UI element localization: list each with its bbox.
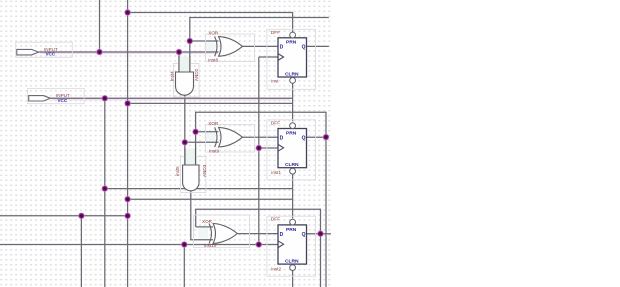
wire clear net vertical below DFF3 CLRN — [292, 271, 294, 287]
svg-text:XOR: XOR — [208, 121, 219, 126]
svg-text:Q: Q — [302, 135, 306, 141]
junction T1 net at XOR2 input — [181, 139, 188, 146]
xor gate U inst10 — [194, 215, 250, 248]
and gate AND3 inst5 (rotated, pointing down) — [175, 148, 207, 193]
wire T1 net AND1 output down to XOR2 input B and AND3 input A — [184, 95, 186, 166]
wire DFF1 Q output (dangling end) — [307, 45, 329, 47]
wire Q0 feedback horizontal y=17.5 (dangling end) — [190, 18, 329, 42]
junction PRN net top — [124, 9, 131, 16]
wire DFF3 Q output (dangling end) — [307, 233, 332, 235]
wire PRN net horizontal y=215.8 from left edge — [0, 215, 128, 217]
wire PRN net horizontal y=199.2 — [128, 198, 293, 200]
svg-text:Q: Q — [302, 232, 306, 238]
wire Q0 net branch to AND1 input B — [189, 41, 191, 73]
junction enable to AND1 — [175, 48, 182, 55]
wire Q2 feedback horizontal y=209.3 — [196, 209, 321, 233]
wire clear net horizontal y=188.6 to DFF2 CLRN — [105, 188, 293, 190]
wire XOR1 output to DFF1 D — [243, 45, 279, 47]
wire PRN net horizontal y=103.4 — [128, 102, 293, 104]
svg-text:VCC: VCC — [57, 98, 67, 103]
wire clock net vertical x=258.8 — [258, 57, 260, 245]
junction clock at DFF2 — [255, 144, 262, 151]
svg-text:inst5: inst5 — [175, 166, 180, 176]
wire clear net vertical x=104.8 — [104, 98, 106, 287]
wire Q2 net vertical down x=320.5 to bottom edge — [320, 234, 322, 287]
wire PRN net vertical x=127.6 (top edge to bottom edge) — [127, 0, 129, 287]
svg-text:XOR: XOR — [202, 219, 213, 224]
wire glow clear net — [52, 97, 290, 100]
svg-text:inst2: inst2 — [271, 266, 281, 271]
svg-text:inst1: inst1 — [271, 170, 281, 175]
svg-text:DFF: DFF — [271, 120, 280, 126]
svg-text:inst8: inst8 — [208, 58, 218, 63]
wire glow enable net — [40, 51, 218, 54]
svg-text:inst4: inst4 — [169, 71, 174, 81]
wire INPUT2 clear horizontal y=98.3 to DFF1 CLRN — [51, 97, 293, 99]
svg-text:inst10: inst10 — [204, 243, 217, 248]
dff U inst2 (bit 2) — [267, 216, 316, 276]
svg-text:DFF: DFF — [271, 217, 280, 223]
wire INPUT1 enable vertical x=99.5 from top edge — [99, 0, 101, 52]
junction PRN net y=215.8 — [124, 212, 131, 219]
junction clock branch x=184.3 — [181, 241, 188, 248]
svg-text:CLRN: CLRN — [285, 259, 299, 265]
junction PRN net y=199.2 — [124, 196, 131, 203]
xor gate U inst8 — [204, 31, 255, 63]
wire clock branch down x=184.3 — [183, 245, 185, 287]
junction Q0 net — [186, 37, 193, 44]
svg-text:DFF: DFF — [271, 30, 280, 36]
wire clock stub to DFF2 clk — [259, 147, 278, 149]
wire INPUT1 enable horizontal y=52 to XOR1 input B — [39, 51, 219, 53]
wire clock horizontal y=244.5 from left edge to DFF3 clk — [0, 244, 278, 246]
junction enable at x=99.5 — [96, 48, 103, 55]
svg-text:D: D — [280, 232, 284, 238]
wire vertical DFF1 CLRN to DFF2 PRN — [292, 84, 294, 122]
wire Q1 net vertical down x=326 to bottom edge — [325, 137, 327, 287]
junction clock at DFF3 — [255, 241, 262, 248]
junction Q2 net at DFF3 output — [317, 230, 324, 237]
svg-text:D: D — [280, 45, 284, 51]
wire T2 net AND3 output down to XOR3 input B — [191, 191, 213, 240]
svg-text:PRN: PRN — [286, 130, 297, 136]
wire DFF2 Q output to junction — [307, 136, 327, 138]
junction PRN net y=103.4 — [124, 100, 131, 107]
wire T1 net to XOR2 input B — [185, 141, 219, 143]
svg-text:D: D — [280, 135, 284, 141]
wire XOR2 output to DFF2 D — [243, 136, 279, 138]
wire Q1 net branch to AND3 input B — [195, 132, 197, 166]
wire vertical DFF2 CLRN to DFF3 PRN — [292, 174, 294, 218]
svg-text:AND2: AND2 — [194, 68, 199, 81]
svg-text:inst: inst — [271, 79, 279, 84]
svg-text:XOR: XOR — [208, 31, 219, 36]
svg-text:CLRN: CLRN — [285, 71, 299, 77]
wire enable branch to AND1 input A — [178, 52, 180, 73]
dff U inst (bit 0) — [267, 29, 316, 89]
svg-text:PRN: PRN — [286, 40, 297, 46]
junction Q1 net at XOR2 input — [192, 128, 199, 135]
input pin symbol INPUT1 (VCC) — [16, 42, 73, 57]
junction Q1 net at DFF2 output — [322, 133, 329, 140]
svg-text:VCC: VCC — [45, 52, 55, 57]
wire Q2 net to XOR3 input A — [196, 226, 213, 228]
wire clock stub to DFF1 clk — [259, 56, 278, 58]
junction clear net y=188.6 — [101, 185, 108, 192]
svg-text:inst9: inst9 — [209, 148, 219, 153]
xor gate U inst9 — [204, 121, 255, 153]
wire Q1 net to XOR2 input A — [196, 131, 219, 133]
svg-text:Q: Q — [302, 45, 306, 51]
wire XOR3 output to DFF3 D — [238, 233, 279, 235]
input pin symbol INPUT2 (VCC) — [28, 89, 85, 104]
dff U inst1 (bit 1) — [267, 120, 316, 180]
wire Q0 net to XOR1 input A — [190, 40, 219, 42]
wire PRN net branch vertical x=81.4 — [80, 216, 82, 287]
svg-text:CLRN: CLRN — [285, 162, 299, 168]
junction PRN net branch x=81.4 — [78, 212, 85, 219]
wire Q1 feedback horizontal y=112.3 — [196, 112, 326, 137]
junction clear net x=104.8 — [101, 95, 108, 102]
svg-text:PRN: PRN — [286, 227, 297, 233]
wire PRN net horizontal y=12.5 to DFF1 preset — [128, 13, 293, 33]
and gate AND2 inst4 (rotated, pointing down) — [169, 56, 199, 97]
svg-text:AND3: AND3 — [202, 164, 207, 177]
